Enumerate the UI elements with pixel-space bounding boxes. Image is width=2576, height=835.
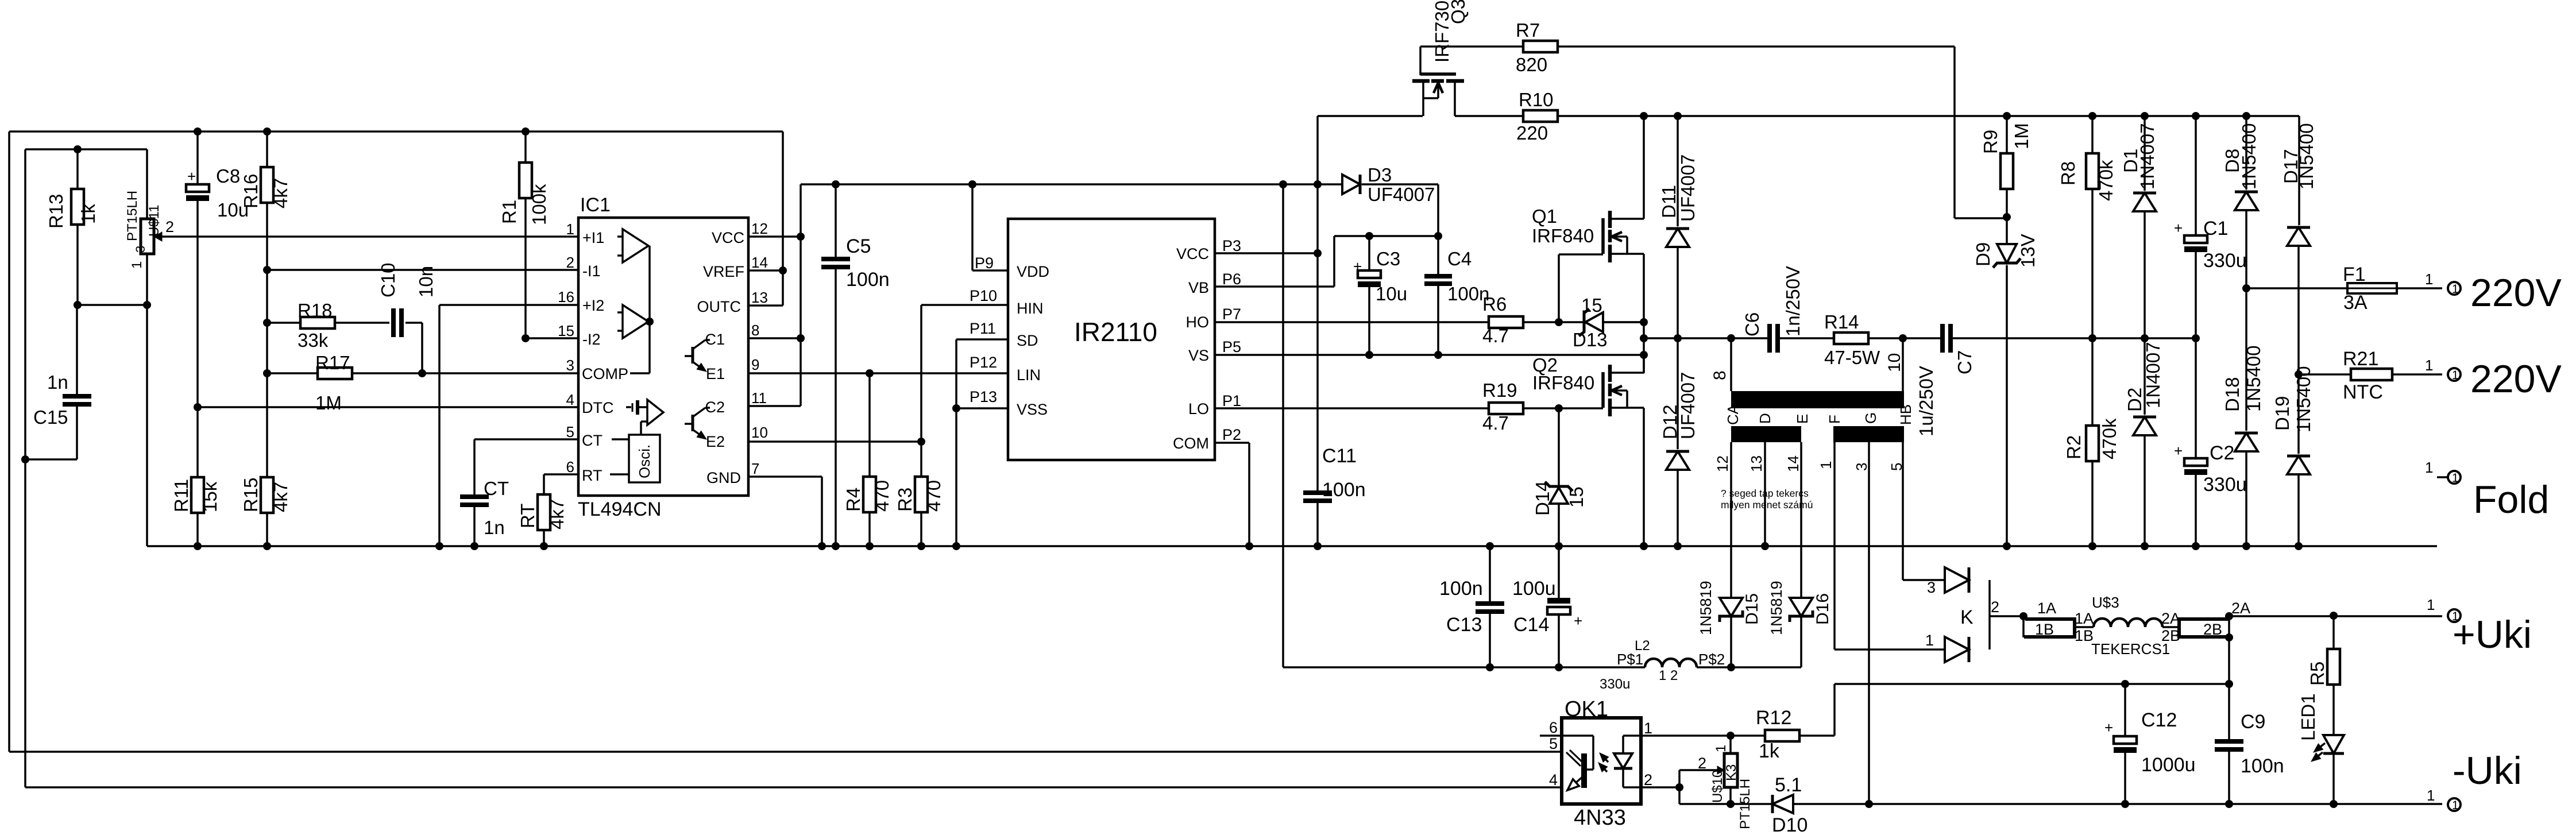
svg-text:470: 470 <box>871 480 893 512</box>
svg-text:CT: CT <box>484 478 509 499</box>
svg-text:8: 8 <box>1710 370 1729 380</box>
IC1 error amplifier 2 <box>623 305 648 338</box>
svg-text:10n: 10n <box>415 266 437 297</box>
node D8 top <box>2242 112 2250 120</box>
node U$10 bottom <box>1727 800 1735 808</box>
node C4 bottom <box>1434 351 1442 359</box>
svg-text:R15: R15 <box>240 477 261 512</box>
resistor R13 <box>76 149 79 189</box>
svg-text:C9: C9 <box>2241 711 2265 733</box>
node C13 bottom <box>1486 663 1494 671</box>
IC1 oscillator box <box>629 435 660 482</box>
svg-text:TL494CN: TL494CN <box>578 498 662 520</box>
svg-text:330u: 330u <box>2203 474 2247 496</box>
wire pin1 to K <box>1835 648 1945 651</box>
wire ground rail start <box>146 305 148 546</box>
svg-text:1M: 1M <box>315 392 342 413</box>
svg-text:Q3: Q3 <box>1447 0 1469 24</box>
node C1 top <box>2192 112 2200 120</box>
svg-text:SD: SD <box>1017 332 1038 349</box>
wire R16 column down <box>266 270 268 373</box>
svg-text:+: + <box>187 168 196 185</box>
svg-text:E2: E2 <box>706 433 725 450</box>
svg-text:1: 1 <box>2452 369 2459 382</box>
svg-text:U$10: U$10 <box>1710 770 1725 803</box>
node D15 bottom <box>1727 663 1735 671</box>
svg-text:D19: D19 <box>2272 396 2293 431</box>
resistor R9 <box>2006 116 2008 153</box>
node +I2 drop ground <box>435 542 443 550</box>
wire -I1 net <box>267 269 578 271</box>
node COMP left <box>263 369 271 377</box>
resistor RT <box>544 473 578 476</box>
svg-text:3A: 3A <box>2343 292 2368 314</box>
wire VDD drop <box>971 184 974 270</box>
node pin3 to -Uki rail <box>1865 800 1873 808</box>
node R18 tap <box>263 319 271 327</box>
svg-text:4N33: 4N33 <box>1574 806 1626 830</box>
diode K lower <box>1945 637 1969 662</box>
node COM ground <box>1245 542 1253 550</box>
svg-text:C12: C12 <box>2141 709 2177 731</box>
svg-text:3: 3 <box>1853 463 1870 471</box>
svg-text:5: 5 <box>566 423 574 440</box>
svg-text:UF4007: UF4007 <box>1368 184 1435 205</box>
wire OK1 pin5 line <box>9 751 1562 753</box>
transformer TR1 primary winding <box>1731 391 1904 408</box>
svg-text:RT: RT <box>517 504 538 528</box>
diode D10 <box>1771 795 1774 813</box>
svg-text:13: 13 <box>1748 455 1765 472</box>
capacitor C8 <box>196 132 199 184</box>
node VCC rail mid <box>1279 180 1287 188</box>
wire LO P1 <box>1215 407 1489 409</box>
wire OUTC pin13 <box>748 304 783 307</box>
wire VCC pin12 <box>748 235 801 238</box>
wire +I2 ground drop <box>438 305 441 546</box>
svg-text:15k: 15k <box>199 481 221 512</box>
transistor Q2 IRF840 <box>1601 372 1605 408</box>
svg-text:K3: K3 <box>1724 764 1739 781</box>
svg-text:1n: 1n <box>484 517 505 538</box>
svg-text:1: 1 <box>2452 471 2459 485</box>
svg-text:9: 9 <box>751 356 759 373</box>
wire VB riser <box>1333 236 1335 287</box>
node R8 top <box>2088 112 2096 120</box>
svg-text:HIN: HIN <box>1017 300 1044 317</box>
node C15 corner <box>21 455 29 463</box>
wire GND pin7 <box>748 476 822 478</box>
node C5 bottom <box>832 542 840 550</box>
resistor R6 <box>1489 316 1523 328</box>
node D8/F1 junction <box>2242 284 2250 292</box>
svg-text:-I2: -I2 <box>582 331 601 348</box>
wire D17 feed <box>2298 116 2300 225</box>
transistor Q1 IRF840 <box>1601 218 1605 254</box>
svg-text:+: + <box>2174 219 2183 237</box>
transformer TR1 aux winding <box>1731 426 1801 442</box>
wire VDD net <box>972 269 1008 272</box>
node switch mid <box>1640 334 1648 342</box>
svg-text:2B: 2B <box>2203 621 2222 638</box>
svg-text:COM: COM <box>1173 435 1209 452</box>
svg-text:R10: R10 <box>1519 89 1554 110</box>
wire aux pin 14 drop <box>1800 442 1802 598</box>
node R17/C10 junction <box>418 369 426 377</box>
svg-text:C5: C5 <box>846 235 871 257</box>
svg-text:E1: E1 <box>706 365 725 382</box>
node pin12 <box>797 233 805 241</box>
svg-text:Fold: Fold <box>2473 478 2549 521</box>
svg-text:13: 13 <box>751 289 768 306</box>
capacitor C6 <box>1767 324 1772 353</box>
wire feedback line <box>1835 683 2229 685</box>
node pin2 junction <box>1675 783 1683 791</box>
svg-text:Osci.: Osci. <box>636 444 653 478</box>
svg-text:10: 10 <box>1885 353 1904 372</box>
zener diode D9 13V <box>2006 217 2008 244</box>
svg-text:16: 16 <box>558 288 574 306</box>
IC1 comparator output bus <box>648 246 651 373</box>
svg-text:P1: P1 <box>1222 392 1241 409</box>
svg-text:6: 6 <box>566 458 574 476</box>
op-amp U2 IR2110 box <box>1008 219 1215 460</box>
svg-text:R12: R12 <box>1756 707 1791 729</box>
svg-text:R18: R18 <box>298 300 333 321</box>
resistor R8 <box>2091 116 2094 153</box>
svg-text:+I1: +I1 <box>582 229 604 246</box>
node D17/R21 junction <box>2295 370 2303 378</box>
fuse F1 <box>2246 287 2347 289</box>
node R4 bottom <box>866 542 874 550</box>
svg-text:4: 4 <box>1549 771 1558 788</box>
svg-text:C1: C1 <box>2203 218 2228 239</box>
wire aux pin 13 to ground <box>1764 442 1766 546</box>
svg-text:1A: 1A <box>2037 600 2056 617</box>
wire R12 to feedback riser <box>1833 684 1836 736</box>
svg-text:1N5819: 1N5819 <box>1697 581 1714 635</box>
svg-text:220V: 220V <box>2470 271 2562 315</box>
wire OK1 pin1 net <box>1641 735 1765 737</box>
diode D8 1N5400 <box>2245 116 2247 190</box>
svg-text:R14: R14 <box>1824 311 1859 333</box>
svg-text:14: 14 <box>751 254 768 271</box>
svg-text:D18: D18 <box>2222 377 2243 412</box>
svg-text:Q1: Q1 <box>1532 206 1557 227</box>
svg-text:P2: P2 <box>1222 426 1241 443</box>
node choke out B <box>2225 633 2233 641</box>
resistor R12 <box>1765 730 1799 741</box>
OK1 phototransistor <box>1562 735 1593 737</box>
svg-text:1u/250V: 1u/250V <box>1915 366 1937 436</box>
node R3 bottom <box>917 542 925 550</box>
svg-text:1: 1 <box>129 261 145 269</box>
wire switch node to primary <box>1644 337 1767 339</box>
svg-text:1N4007: 1N4007 <box>2137 123 2158 190</box>
svg-text:IRF840: IRF840 <box>1532 225 1594 246</box>
diode D3 <box>1342 175 1360 194</box>
node R5 top <box>2330 612 2338 620</box>
wire HIN riser <box>920 305 922 442</box>
svg-text:G: G <box>1862 412 1879 424</box>
svg-text:4.7: 4.7 <box>1482 412 1509 434</box>
svg-text:P7: P7 <box>1222 306 1241 323</box>
trimmer U$10 PT15LH <box>1729 736 1732 753</box>
wire pin12 riser <box>800 184 802 406</box>
wire COMP net <box>422 372 578 374</box>
svg-text:R2: R2 <box>2063 435 2084 459</box>
svg-text:7: 7 <box>751 460 759 477</box>
svg-text:D16: D16 <box>1813 593 1832 625</box>
svg-text:VREF: VREF <box>703 263 744 280</box>
wire COM P2 <box>1215 442 1249 444</box>
svg-text:47-5W: 47-5W <box>1824 347 1880 368</box>
svg-text:470k: 470k <box>2095 160 2117 201</box>
wire OK1 pin4 line <box>25 786 1562 788</box>
wire C10 to COMP <box>421 323 423 373</box>
svg-text:P3: P3 <box>1222 237 1241 254</box>
svg-text:3: 3 <box>1927 579 1936 596</box>
diode K upper <box>1945 567 1969 593</box>
svg-text:330u: 330u <box>2203 250 2247 272</box>
capacitor C15 <box>76 305 78 395</box>
diode D18 1N5400 <box>2245 288 2247 431</box>
node C13 top <box>1486 542 1494 550</box>
zener diode D14 15V <box>1558 408 1560 486</box>
node switch node top <box>1640 318 1648 326</box>
main ground rail <box>147 545 2437 547</box>
svg-text:1A: 1A <box>2075 610 2094 627</box>
svg-text:P10: P10 <box>970 287 997 304</box>
svg-text:100n: 100n <box>846 269 890 291</box>
inductor U$3 right block <box>2179 619 2230 637</box>
svg-text:PT15LH: PT15LH <box>125 191 140 241</box>
svg-text:2: 2 <box>165 218 174 235</box>
svg-text:1: 1 <box>1925 632 1934 649</box>
svg-text:E: E <box>1794 414 1811 424</box>
svg-text:4: 4 <box>566 391 574 408</box>
node R9 top <box>2003 112 2011 120</box>
svg-text:GND: GND <box>706 469 741 486</box>
trimmer U$11 PT15LH <box>146 149 148 219</box>
led LED1 <box>2323 735 2344 753</box>
svg-text:1: 1 <box>2425 357 2433 374</box>
node choke input <box>2019 612 2027 620</box>
node Q1 drain rail <box>1640 112 1648 120</box>
resistor R18 <box>267 322 300 324</box>
svg-text:DTC: DTC <box>582 399 614 416</box>
wire +I2 net <box>439 304 578 306</box>
wire E1 pin9 to LIN <box>748 372 1008 374</box>
svg-text:1: 1 <box>2427 787 2435 804</box>
svg-text:-Uki: -Uki <box>2453 749 2522 793</box>
svg-text:+: + <box>1353 258 1362 275</box>
wire aux pin 12 drop <box>1730 442 1732 598</box>
node D18 ground <box>2242 542 2250 550</box>
svg-text:VCC: VCC <box>712 229 744 246</box>
svg-text:1N5400: 1N5400 <box>2293 366 2314 432</box>
resistor R7 <box>1420 45 1523 48</box>
node C12 top <box>2121 680 2129 688</box>
capacitor C4 <box>1437 236 1439 274</box>
node D1 bottom <box>2141 334 2149 342</box>
svg-text:5: 5 <box>1549 735 1558 752</box>
resistor R19 <box>1489 403 1523 414</box>
svg-text:4k7: 4k7 <box>546 499 567 529</box>
svg-text:1k: 1k <box>78 204 99 224</box>
zener diode D13 15V <box>1559 321 1584 323</box>
wire Q2 source <box>1643 408 1645 546</box>
svg-text:UF4007: UF4007 <box>1677 154 1698 222</box>
capacitor C3 <box>1368 236 1370 270</box>
node RT bottom <box>540 542 548 550</box>
svg-text:milyen menet számú: milyen menet számú <box>1721 499 1813 511</box>
node C4 top <box>1434 232 1442 240</box>
svg-text:100n: 100n <box>2241 755 2284 777</box>
diode D2 1N4007 <box>2144 338 2146 415</box>
svg-text:LO: LO <box>1188 400 1209 418</box>
svg-text:R8: R8 <box>2057 161 2079 185</box>
wire HIN net <box>921 304 1008 306</box>
svg-text:100k: 100k <box>528 184 550 225</box>
wire CT net <box>474 438 578 440</box>
svg-text:1: 1 <box>2452 799 2459 812</box>
svg-text:+: + <box>1574 612 1582 629</box>
node D2 ground <box>2141 542 2149 550</box>
capacitor CT <box>473 439 476 495</box>
svg-text:RT: RT <box>582 467 603 484</box>
svg-text:COMP: COMP <box>582 365 628 382</box>
node C3 top <box>1365 232 1373 240</box>
svg-text:NTC: NTC <box>2343 381 2383 403</box>
wire -I2 net <box>526 337 578 339</box>
wire VCC rail <box>801 183 1342 185</box>
svg-text:2B: 2B <box>2161 627 2180 644</box>
svg-text:1: 1 <box>566 221 574 238</box>
node C1/C2 junction <box>2192 334 2200 342</box>
resistor R14 <box>1834 333 1868 344</box>
svg-text:2A: 2A <box>2231 600 2250 617</box>
resistor R17 <box>267 372 318 374</box>
svg-text:220V: 220V <box>2470 357 2562 401</box>
svg-text:1: 1 <box>2452 283 2459 296</box>
svg-text:100n: 100n <box>1322 479 1366 501</box>
node R6 out <box>1555 318 1563 326</box>
wire VREF rail <box>9 130 783 133</box>
svg-text:C3: C3 <box>1376 248 1400 269</box>
wire C1 pin8 <box>748 337 801 339</box>
diode D17 1N5400 <box>2287 226 2310 229</box>
IC1 DTC comparator <box>626 406 631 408</box>
svg-text:C2: C2 <box>2210 442 2234 464</box>
svg-text:1: 1 <box>2427 596 2435 613</box>
svg-text:D11: D11 <box>1658 185 1679 218</box>
svg-text:R17: R17 <box>315 352 350 373</box>
op-amp U1 IC1 TL494CN box <box>578 218 748 496</box>
svg-text:R9: R9 <box>1980 130 2001 154</box>
node C14 bottom <box>1555 663 1563 671</box>
node R8 bottom <box>2088 334 2096 342</box>
node VCC/Q3 source <box>1314 180 1322 188</box>
svg-text:IR2110: IR2110 <box>1074 317 1157 347</box>
node D9 ground <box>2003 542 2011 550</box>
svg-text:U$11: U$11 <box>146 204 162 237</box>
svg-text:12: 12 <box>751 220 768 237</box>
node C11 ground <box>1314 542 1322 550</box>
svg-text:4k7: 4k7 <box>270 482 291 512</box>
wire R6 to Q1 gate <box>1558 254 1560 322</box>
svg-text:IRF840: IRF840 <box>1532 372 1594 393</box>
node Q2 source ground <box>1640 542 1648 550</box>
resistor R5 <box>2332 616 2335 649</box>
node R9/D9 junction <box>2003 213 2011 221</box>
svg-text:D9: D9 <box>1972 242 1994 266</box>
IC1 output transistor 1 <box>685 355 693 357</box>
transformer TR1 secondary winding <box>1833 426 1904 442</box>
node primary pin8 tap <box>1727 334 1735 342</box>
node D11 rail <box>1674 112 1682 120</box>
node R13 bottom <box>74 301 82 309</box>
wire HO P7 <box>1215 321 1489 323</box>
wire D3 cathode <box>1362 183 1438 185</box>
svg-text:P13: P13 <box>970 388 997 405</box>
svg-text:3: 3 <box>566 357 574 374</box>
wire VREF pin14 <box>748 269 783 272</box>
wire left loop vertical <box>24 149 26 787</box>
svg-text:CT: CT <box>582 432 603 449</box>
svg-text:R1: R1 <box>499 200 520 224</box>
svg-text:OUTC: OUTC <box>697 298 741 315</box>
node pin8 <box>797 334 805 342</box>
wire pin5 to K <box>1903 579 1945 581</box>
svg-text:1N5400: 1N5400 <box>2296 123 2317 190</box>
svg-text:C8: C8 <box>216 165 240 187</box>
svg-text:R11: R11 <box>171 479 192 512</box>
svg-text:R4: R4 <box>843 488 864 512</box>
svg-text:R13: R13 <box>45 194 67 229</box>
resistor R4 <box>868 373 871 477</box>
svg-text:330u: 330u <box>1600 676 1630 692</box>
svg-text:D: D <box>1756 413 1774 424</box>
IC1 output transistor 2 <box>685 423 693 425</box>
node D1 top <box>2141 112 2149 120</box>
svg-text:6: 6 <box>1549 719 1558 736</box>
svg-text:D3: D3 <box>1368 164 1392 185</box>
diode D12 UF4007 <box>1677 338 1679 449</box>
capacitor C11 <box>1303 490 1332 495</box>
node C8 top <box>194 127 202 136</box>
wire VSS net <box>956 407 1008 409</box>
wire U$10 pin2 link <box>1679 769 1724 771</box>
diode D15 1N5819 <box>1720 598 1743 616</box>
OK1 led <box>1623 735 1641 737</box>
svg-text:1 2: 1 2 <box>1659 668 1678 683</box>
resistor R3 <box>920 442 922 477</box>
svg-text:1: 1 <box>1817 461 1835 469</box>
svg-text:470: 470 <box>923 480 944 512</box>
svg-text:470k: 470k <box>2099 418 2120 459</box>
wire Q3 source link <box>1318 115 1423 117</box>
resistor R21 NTC <box>2299 373 2351 376</box>
resistor R16 <box>266 132 268 167</box>
svg-text:IC1: IC1 <box>580 194 611 216</box>
svg-text:F: F <box>1826 415 1843 424</box>
svg-text:1N5819: 1N5819 <box>1768 581 1785 635</box>
svg-text:P12: P12 <box>970 354 997 371</box>
svg-text:P5: P5 <box>1222 338 1241 355</box>
svg-text:R5: R5 <box>2307 662 2328 686</box>
resistor R15 <box>266 373 268 477</box>
